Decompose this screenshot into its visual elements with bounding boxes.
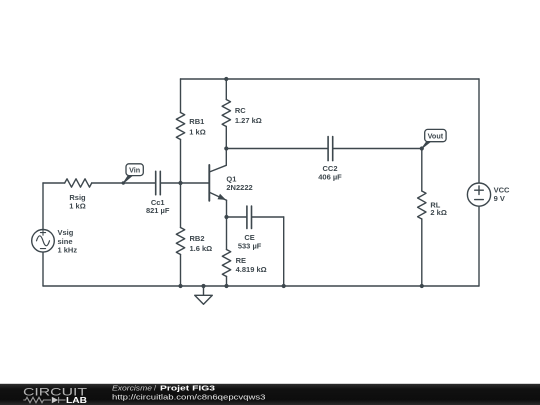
svg-text:Vout: Vout	[428, 132, 444, 141]
svg-text:Vin: Vin	[129, 165, 140, 174]
svg-text:2 kΩ: 2 kΩ	[430, 208, 446, 217]
svg-text:Vsig: Vsig	[58, 228, 74, 237]
svg-text:Projet FIG3: Projet FIG3	[160, 383, 215, 392]
svg-text:1 kΩ: 1 kΩ	[189, 127, 205, 136]
svg-text:406 µF: 406 µF	[318, 172, 342, 181]
svg-text:9 V: 9 V	[494, 194, 505, 203]
svg-text:sine: sine	[58, 237, 73, 246]
svg-text:1.6 kΩ: 1.6 kΩ	[190, 244, 213, 253]
svg-text:533 µF: 533 µF	[238, 241, 262, 250]
svg-text:Exorcisme: Exorcisme	[112, 383, 152, 392]
svg-text:RE: RE	[236, 256, 246, 265]
svg-text:1 kΩ: 1 kΩ	[69, 201, 85, 210]
svg-text:821 µF: 821 µF	[146, 206, 170, 215]
svg-text:2N2222: 2N2222	[226, 183, 252, 192]
svg-text:RB2: RB2	[190, 234, 205, 243]
svg-text:LAB: LAB	[66, 396, 87, 405]
svg-text:RB1: RB1	[189, 117, 204, 126]
svg-text:RC: RC	[235, 106, 246, 115]
svg-text:1.27 kΩ: 1.27 kΩ	[235, 116, 262, 125]
svg-text:http://circuitlab.com/c8n6qepc: http://circuitlab.com/c8n6qepcvqws3	[112, 392, 266, 401]
svg-text:1 kHz: 1 kHz	[58, 246, 78, 255]
svg-text:4.819 kΩ: 4.819 kΩ	[236, 265, 267, 274]
